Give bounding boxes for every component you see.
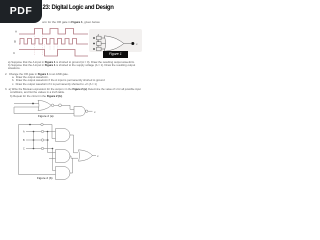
OR gate [79,150,93,161]
AND gate 1 [56,129,71,142]
OR output wire [92,155,96,157]
figure 2(a) caption [38,115,54,118]
inline inverter bubble [59,104,62,107]
fig2b row labels [23,131,25,151]
AND3 output up to OR bottom line [70,158,73,173]
input wire A [101,37,106,39]
gate G2 (AND) [74,107,85,117]
figure 1 input letters [98,34,100,48]
dashed alignment gridlines [35,29,58,56]
OR gate U1 [104,36,124,51]
row3 tap down to AND3 [52,148,54,150]
inverter bubbles on rows [41,130,43,132]
wire to G2 with jog down [62,105,75,109]
svg-text:x: x [94,110,96,114]
question 3 [5,88,141,91]
G1 output bubble [51,104,54,107]
input row 3 [26,148,53,150]
figure 2(a) and 2(b) circuits [0,0,149,198]
middle AND second input [49,158,56,160]
node dot on top rail [29,124,31,126]
G2 output bubble [86,110,88,112]
input box B [97,42,102,46]
wire after G1 [54,104,59,106]
svg-text:x: x [97,154,99,158]
waveform B [19,39,88,45]
input wire C [101,48,106,50]
AND gate 3 [56,167,71,180]
waveform C [19,50,88,57]
inverter bubble on top rail [41,123,43,125]
paragraph a) [8,61,135,64]
question 1 text line [42,21,100,24]
PDF badge text [0,5,42,17]
svg-text:C: C [23,148,25,151]
input node dot B [93,43,95,45]
title [43,5,114,11]
AND gate 2 [56,150,71,163]
outer feedback loop [19,125,56,175]
input row 1 [26,131,56,133]
row2 tap down to AND2 [47,139,49,141]
output node dot [131,42,134,45]
G2 output wire [88,110,93,112]
svg-text:B: B [23,139,25,142]
input box A [97,36,102,40]
svg-text:A: A [23,131,25,134]
figure 2(b) caption [37,177,53,180]
AND2 output to OR bottom input [70,156,78,158]
question 2 [5,73,69,76]
AND1 output to OR top input [70,135,78,153]
input row 2 [26,139,49,141]
timing diagram waveforms A B C [0,0,149,198]
bottom bypass tap [14,107,74,114]
node dot on input 1 [32,103,34,105]
figure 1 light backdrop [89,29,142,52]
row1 dot on bus2 [47,131,49,133]
input wire B [101,43,105,45]
input wire 2 [14,106,39,108]
waveform A [19,29,88,35]
PDF badge [0,0,42,23]
paragraph b) [8,64,135,67]
figure 1 caption badge [103,51,129,58]
input node dot A [93,37,95,39]
input node dot C [93,48,95,50]
input wire 1 [14,103,39,105]
drop from top rail to AND1 input [52,125,56,139]
bus dots column 1 [33,131,35,133]
waveform labels [13,30,17,56]
input box C [97,47,102,51]
paragraph continuation [8,67,20,70]
vertical bus 1 [33,132,35,149]
output wire [124,43,131,45]
gate G1 (NOR shape) [38,100,51,110]
figure 1 OR gate [93,36,134,51]
